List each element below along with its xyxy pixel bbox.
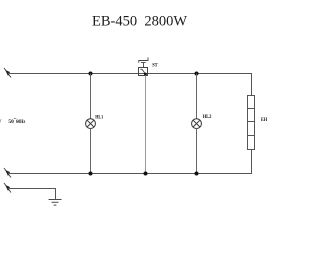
terminal arrow PE (earth lead) (4, 183, 11, 193)
node: junction neutral / HL2 (195, 172, 199, 176)
svg-text:60Hz: 60Hz (16, 119, 26, 125)
wire: right drop from top bus to EH top (251, 73, 253, 96)
thermostat switch ST (139, 57, 149, 75)
node: junction neutral / switch line (144, 172, 148, 176)
ground (earth) (49, 200, 62, 206)
heating element EH (248, 96, 255, 150)
svg-text:HL1: HL1 (95, 115, 103, 121)
svg-text:EH: EH (261, 117, 268, 123)
wire: HL2 branch lower (196, 129, 198, 174)
lamp HL1 (86, 119, 96, 129)
wire: top bus (live) from terminal to right corner (8, 73, 252, 75)
wire: EH bottom to neutral bus corner (251, 150, 253, 175)
node: junction neutral / HL1 (89, 172, 93, 176)
wire: earth lead to ground (8, 189, 56, 200)
svg-text:EB-450 2800W: EB-450 2800W (92, 14, 187, 30)
svg-text:HL2: HL2 (203, 114, 212, 120)
terminal arrow L (top-left supply) (4, 68, 11, 78)
svg-text:V: V (0, 119, 2, 125)
wire: HL1 branch lower (90, 129, 92, 174)
wire: HL1 branch upper (90, 74, 92, 119)
terminal arrow N (bottom-left supply) (4, 168, 11, 178)
wire: bottom bus (neutral) (8, 173, 252, 175)
node: junction top bus / HL2 branch (195, 72, 199, 76)
wire: switch sense line down to neutral bus (145, 76, 147, 174)
lamp HL2 (192, 119, 202, 129)
svg-text:ST: ST (152, 63, 158, 69)
node: junction top bus / HL1 branch (89, 72, 93, 76)
wire: HL2 branch upper (196, 74, 198, 119)
